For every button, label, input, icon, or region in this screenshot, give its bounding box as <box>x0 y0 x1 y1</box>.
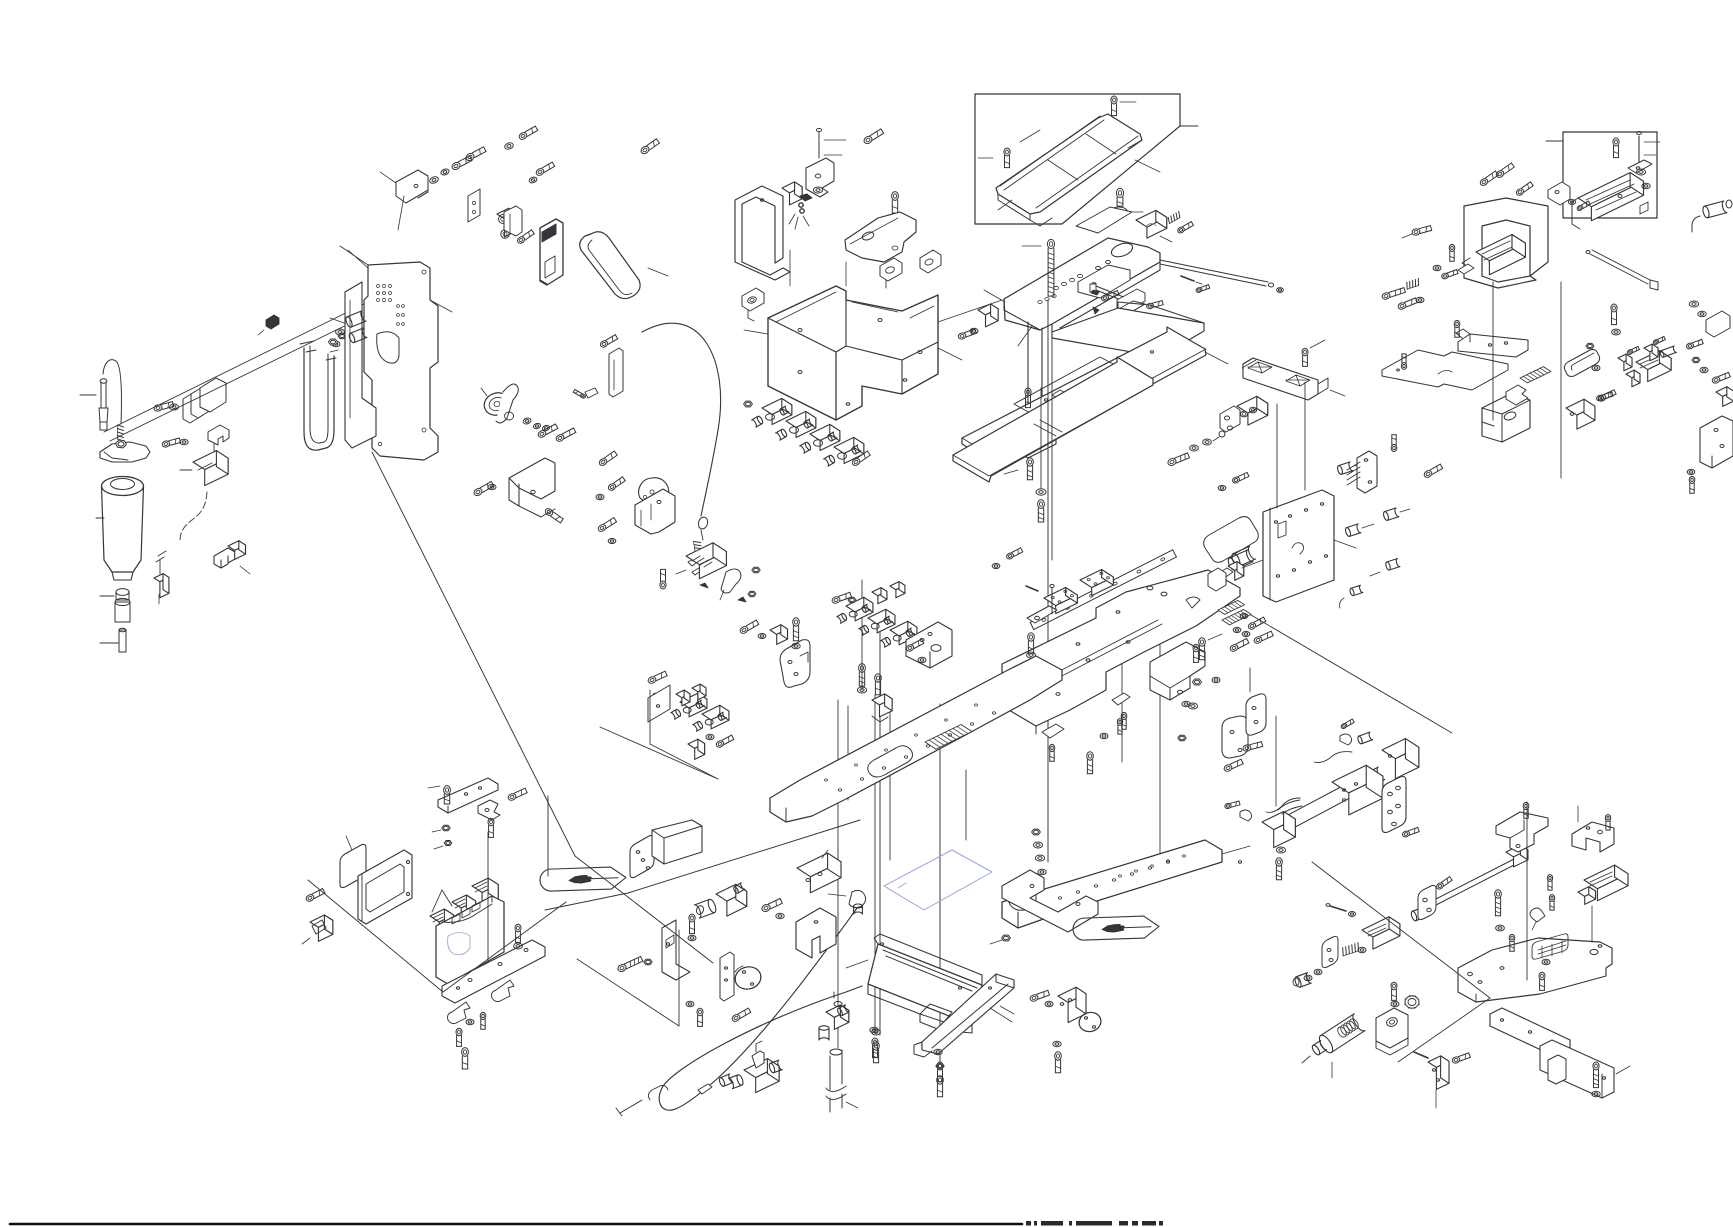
plate 2h <box>1418 885 1436 919</box>
X pad bar <box>1242 358 1345 400</box>
diag gun area <box>1312 862 1490 1062</box>
screw <box>689 914 695 934</box>
washer <box>522 417 531 425</box>
latch block <box>676 543 726 579</box>
diag pair center <box>545 820 860 910</box>
footer rule <box>10 1223 1022 1226</box>
screw <box>598 451 617 467</box>
blue outline plate <box>884 850 992 910</box>
screw <box>697 1008 703 1026</box>
fork clamp <box>208 425 229 452</box>
cover with roller <box>1214 550 1253 581</box>
screw <box>1547 875 1552 891</box>
nut <box>644 959 652 964</box>
support column <box>1013 322 1056 458</box>
pin <box>573 388 598 399</box>
T block <box>770 625 788 645</box>
platform sheet <box>1052 302 1204 357</box>
pin small <box>1026 586 1038 591</box>
elbow left <box>1224 801 1251 821</box>
clip a <box>448 1002 471 1024</box>
nut <box>752 567 760 572</box>
hopper funnel <box>96 477 144 581</box>
triangle leader <box>432 890 452 912</box>
washer <box>170 404 179 410</box>
loop sensor b <box>880 258 902 288</box>
paper tray <box>996 114 1142 226</box>
washer pair <box>1304 969 1322 980</box>
cable lug b <box>1345 524 1374 537</box>
screw <box>851 451 870 467</box>
screw <box>872 1038 878 1058</box>
hinge pin <box>816 128 846 158</box>
hopper outlet fittings <box>100 589 130 622</box>
rocker switch <box>302 915 333 944</box>
diag right long <box>1251 615 1452 733</box>
screw <box>731 1008 751 1023</box>
pin <box>1050 585 1054 615</box>
step bracket <box>1150 642 1205 700</box>
label plate <box>340 836 366 888</box>
mount strip <box>442 940 545 1003</box>
washer <box>608 538 616 543</box>
knob screw <box>1116 188 1123 206</box>
screw <box>1549 895 1554 911</box>
tray detail box <box>975 94 1180 224</box>
X plate <box>1002 570 1240 734</box>
ball valve <box>729 1041 783 1093</box>
leader lines <box>790 250 846 286</box>
cyl fittings <box>1340 719 1373 745</box>
right angle bracket <box>1687 416 1733 493</box>
screw <box>1242 742 1262 752</box>
hand callout R <box>1073 916 1160 941</box>
wedge <box>1093 307 1099 314</box>
clip b <box>492 980 515 1002</box>
washer <box>1188 703 1197 709</box>
fence line D <box>443 902 566 992</box>
screw <box>597 518 617 533</box>
screw <box>456 1028 462 1046</box>
washer <box>776 913 784 919</box>
connector housing <box>154 574 169 604</box>
washer <box>1542 959 1550 964</box>
washer <box>1100 733 1108 738</box>
T nut a <box>1618 346 1639 370</box>
top bar plate <box>438 778 498 813</box>
slotted strip <box>468 189 480 222</box>
hinge bracket TR <box>1548 182 1590 211</box>
main bracket plate <box>330 246 438 460</box>
screw <box>518 126 538 141</box>
knob screw <box>428 786 450 804</box>
washer <box>1242 631 1250 636</box>
washer <box>1218 485 1226 490</box>
screw <box>1146 301 1163 310</box>
threaded rod <box>118 425 124 441</box>
sensor slab <box>540 219 563 285</box>
black pin <box>1091 290 1099 295</box>
screw <box>892 192 899 213</box>
hinge bracket <box>806 158 834 197</box>
bracket small <box>1208 568 1226 591</box>
verticals right <box>1276 282 1592 980</box>
washer <box>1592 365 1600 370</box>
latch piece <box>782 182 812 229</box>
mount bracket <box>635 489 675 534</box>
photo sensor fork <box>214 541 250 574</box>
channel rail <box>914 974 1014 1057</box>
clip bracket <box>504 206 522 236</box>
tension spring <box>694 542 703 559</box>
relay cube 1 <box>430 909 454 935</box>
manifold block <box>797 850 841 893</box>
washer <box>814 167 824 173</box>
open frame box <box>1464 198 1548 288</box>
relay box <box>180 451 228 486</box>
lower blade sheet <box>953 357 1153 482</box>
comb bracket <box>1347 451 1377 493</box>
nut <box>328 339 337 345</box>
screw <box>873 1042 880 1063</box>
screw <box>1495 890 1502 916</box>
screw <box>1402 827 1420 837</box>
screw <box>1302 340 1325 366</box>
flat angle <box>1117 289 1145 313</box>
bolt <box>1596 392 1613 402</box>
washer <box>488 484 496 490</box>
rear bracket plate <box>345 282 376 448</box>
mini slide <box>1636 346 1676 382</box>
washer <box>872 1029 881 1035</box>
LM carriage 1 <box>1044 588 1077 614</box>
clamp block <box>1136 210 1172 242</box>
screw <box>488 818 494 837</box>
screw <box>1401 354 1406 370</box>
cable lug a <box>1337 462 1366 475</box>
fitting b <box>698 1084 712 1094</box>
screw <box>1391 982 1397 1000</box>
pin small <box>1181 276 1202 284</box>
BR bracket <box>1548 1055 1566 1084</box>
bracket rounded <box>780 640 810 688</box>
screw <box>1402 226 1432 238</box>
clip R <box>1530 908 1545 930</box>
washer <box>918 657 926 662</box>
air tube <box>826 1049 858 1112</box>
pin <box>1414 1052 1428 1058</box>
screw <box>555 428 576 443</box>
cam knob <box>481 388 513 419</box>
fastener col right <box>1686 301 1733 406</box>
screw <box>937 1076 944 1097</box>
hose big loop <box>659 904 862 1110</box>
screws row TR <box>1479 163 1533 197</box>
screw <box>544 507 563 523</box>
wire break symbol <box>156 551 166 574</box>
sub plate <box>1078 265 1130 298</box>
upper blade sheet <box>962 327 1206 467</box>
tray leader 2 <box>1020 130 1160 172</box>
bracket disc <box>1058 987 1103 1034</box>
BR main plate <box>1458 934 1612 1002</box>
screws right <box>1381 278 1424 310</box>
bolt <box>1199 634 1222 660</box>
washer <box>1391 1001 1399 1006</box>
main rail plate <box>770 656 1062 822</box>
washer <box>934 1049 942 1055</box>
screw <box>1193 644 1199 662</box>
nut <box>936 1063 944 1068</box>
screw <box>1509 934 1515 951</box>
screw <box>1276 858 1283 880</box>
channel bracket <box>509 458 555 517</box>
washer <box>180 439 188 445</box>
nut <box>990 935 1010 944</box>
spray gun <box>1302 1014 1365 1078</box>
ball pin <box>1213 431 1225 441</box>
leader <box>398 196 404 230</box>
rail block small <box>1362 917 1400 949</box>
screw <box>905 639 924 652</box>
washer <box>870 1027 878 1033</box>
hand callout L <box>540 867 627 892</box>
washer <box>1036 489 1046 495</box>
relay cube 3 <box>472 878 498 907</box>
angle bracket <box>380 170 428 203</box>
bearing ring <box>1405 995 1420 1008</box>
screw <box>465 147 486 162</box>
Z strip <box>1382 350 1508 390</box>
washer <box>992 563 1000 568</box>
keyboard outline <box>1204 517 1259 563</box>
motor small <box>1228 546 1255 580</box>
hatch strip small <box>1218 600 1245 614</box>
gun bracket <box>1376 1008 1408 1055</box>
washer <box>514 924 523 949</box>
twin hole box <box>1237 396 1268 425</box>
tall pin TR <box>1637 132 1660 163</box>
washer <box>1276 847 1285 853</box>
cable lug d <box>1370 559 1400 576</box>
pillar main plate <box>984 238 1160 346</box>
mini plate <box>1322 936 1338 967</box>
spring small <box>1168 211 1180 223</box>
washer <box>1045 1001 1053 1006</box>
screw <box>528 162 554 184</box>
triangle center <box>577 930 679 1026</box>
washer <box>1203 439 1212 445</box>
power supply box <box>436 896 504 984</box>
leader rod <box>1160 260 1283 292</box>
valve rail upper <box>831 582 917 648</box>
screw <box>1523 802 1529 818</box>
vertical leaders <box>1277 382 1305 508</box>
screw <box>1423 464 1443 479</box>
bolt <box>1592 1062 1600 1097</box>
tray leader <box>1180 125 1198 127</box>
fence vertical <box>488 796 548 962</box>
leader verticals <box>838 300 1160 1062</box>
washer <box>1496 925 1505 931</box>
cover plate shaped <box>845 212 916 262</box>
small cube w screw <box>957 304 998 340</box>
washer <box>1612 329 1621 335</box>
elbow fitting <box>828 890 866 914</box>
spacer rollers <box>345 311 367 344</box>
leader box to plate <box>938 300 1002 322</box>
small arrows <box>700 583 746 602</box>
pin rod <box>1326 904 1346 911</box>
screw <box>937 1062 943 1082</box>
J bracket <box>1246 668 1266 735</box>
sheet pan <box>868 934 982 1033</box>
screw <box>1038 500 1045 522</box>
screw <box>1611 304 1617 325</box>
j plate right <box>1222 716 1248 773</box>
spring stack <box>1343 943 1366 956</box>
fitting a <box>718 1074 733 1087</box>
bezel frame <box>358 850 412 924</box>
bent bracket R <box>1496 812 1548 852</box>
washer <box>1182 701 1190 707</box>
screw <box>1449 244 1455 261</box>
bullet e <box>1340 585 1363 608</box>
plate 3 holes <box>630 835 662 877</box>
washer <box>440 168 450 176</box>
T nut c <box>1626 370 1640 387</box>
clip plate <box>1112 693 1130 734</box>
nut <box>1178 735 1186 740</box>
screw long <box>617 956 643 972</box>
guide strip <box>609 348 623 397</box>
box leader <box>1546 140 1563 142</box>
long screw <box>1022 239 1055 296</box>
U channel frame <box>735 186 790 280</box>
LM carriage 2 <box>1080 570 1113 596</box>
bearing washer <box>1111 207 1144 217</box>
dark clip <box>258 315 279 335</box>
washer <box>466 1019 474 1024</box>
fence line A <box>372 452 575 856</box>
nut <box>434 841 452 850</box>
screw <box>1451 1053 1470 1064</box>
bottom rail plate <box>1002 840 1250 928</box>
U-shaped handle <box>580 232 668 299</box>
angle piece <box>1506 385 1528 405</box>
screw <box>1121 712 1127 729</box>
screw <box>640 139 660 155</box>
loop clip <box>1564 350 1599 377</box>
washer <box>429 176 440 185</box>
bushing b <box>1293 973 1311 988</box>
screw <box>761 899 783 913</box>
clamp piece <box>478 800 500 820</box>
screw <box>1229 639 1249 653</box>
screw <box>473 481 494 497</box>
spacer pin <box>100 628 126 652</box>
latch lever <box>720 569 741 600</box>
fitting c <box>648 1086 668 1101</box>
nut <box>744 401 753 407</box>
cable clips <box>688 557 702 575</box>
screw <box>607 477 625 492</box>
backing plate <box>1076 207 1132 233</box>
washer <box>542 424 550 431</box>
washer <box>533 422 541 429</box>
rail left screws <box>857 664 892 722</box>
mount plates stack <box>183 378 226 423</box>
nut <box>432 825 450 832</box>
washer <box>758 633 766 638</box>
slide unit in box <box>1572 173 1648 229</box>
solenoid cylinder <box>695 883 747 918</box>
T nut b <box>1644 336 1665 360</box>
screw <box>1177 222 1194 234</box>
hatch label <box>1520 367 1551 383</box>
long thin rod TR <box>1586 250 1658 290</box>
detail box TR <box>1563 132 1657 218</box>
screw <box>1006 548 1023 560</box>
gun manifold <box>1428 1056 1449 1108</box>
screw <box>516 230 534 245</box>
bowden cable arc <box>642 323 721 516</box>
screw <box>1454 320 1460 337</box>
screw in box <box>1613 138 1619 158</box>
hatch label <box>1222 610 1251 625</box>
small parts row <box>1433 264 1474 280</box>
clip washer <box>1348 912 1355 917</box>
screw <box>1597 390 1616 403</box>
shelf bracket <box>1456 329 1528 357</box>
nut stack <box>1032 829 1047 875</box>
end plate 4h <box>1382 777 1406 833</box>
link bar <box>1090 284 1136 306</box>
screw <box>1167 453 1190 467</box>
screw <box>1247 617 1266 630</box>
connector panel <box>1263 490 1334 602</box>
washer <box>686 1001 694 1006</box>
BR bar <box>1490 1008 1570 1058</box>
screw <box>462 1048 469 1069</box>
screw <box>1605 815 1610 831</box>
loop sensor c <box>920 250 941 273</box>
angle bracket holes <box>906 622 952 668</box>
screw <box>451 156 472 171</box>
washer <box>1642 183 1650 189</box>
elbow cyl corner <box>1692 200 1732 232</box>
plate small <box>1042 724 1064 761</box>
solenoid valve row <box>752 398 864 466</box>
misc leaders <box>348 250 1356 1022</box>
vertical U pipe <box>300 333 346 450</box>
screw <box>599 335 617 349</box>
footer text <box>1026 1221 1163 1226</box>
rail end tab <box>1027 606 1057 623</box>
loop sensor a <box>742 288 764 321</box>
screw <box>1232 472 1249 484</box>
washer <box>336 329 345 335</box>
bolt <box>1087 752 1094 774</box>
nut <box>1192 679 1201 685</box>
agitator arm plate <box>100 440 150 462</box>
screw <box>660 569 666 589</box>
cube part <box>1566 399 1595 429</box>
screw <box>1025 388 1031 408</box>
cam disc <box>639 478 669 506</box>
tray screw 1 <box>978 148 1010 168</box>
para plate <box>648 685 670 722</box>
